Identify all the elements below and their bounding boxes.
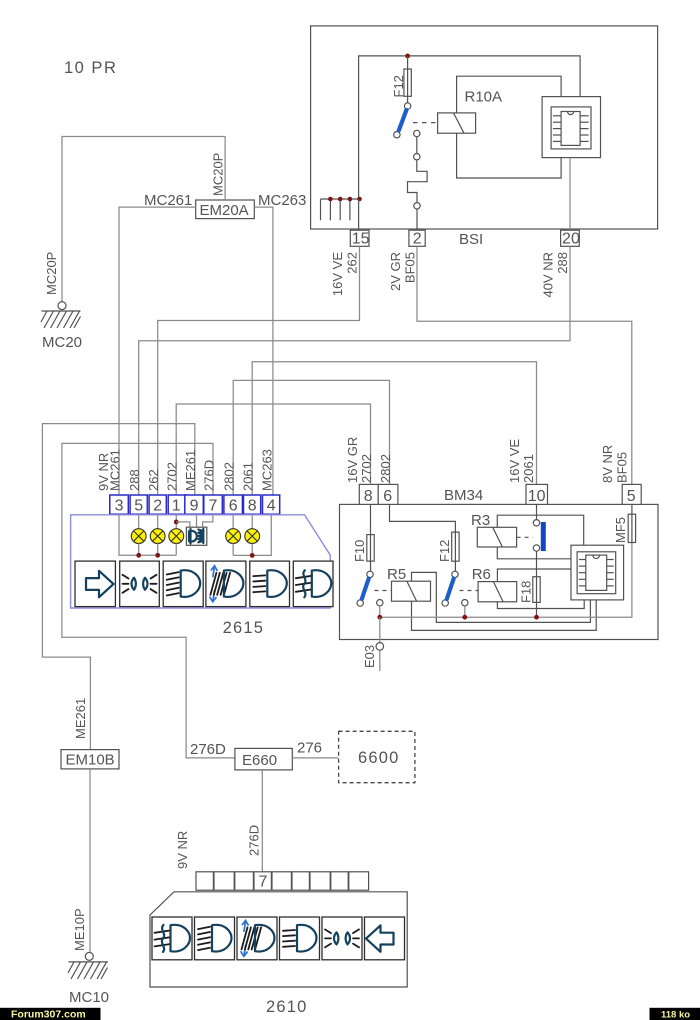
svg-text:2: 2 — [153, 498, 162, 515]
svg-text:ME261: ME261 — [73, 698, 88, 739]
wire thermal contact chain to pin 2 — [408, 137, 428, 230]
wire net MC263 (EM20A to 2615 pin4) — [254, 207, 273, 495]
icon headlamp leveling (2610) — [237, 917, 277, 960]
svg-text:5: 5 — [134, 498, 143, 515]
svg-text:R6: R6 — [472, 566, 491, 583]
svg-text:R5: R5 — [387, 566, 406, 583]
wire lamp return bus left (to pin3) — [119, 514, 176, 555]
wire R6 contact to ground bus — [464, 606, 466, 617]
relay coil R5 — [392, 581, 431, 601]
svg-text:BF05: BF05 — [403, 252, 418, 283]
svg-text:2: 2 — [413, 231, 422, 248]
switch contact (BSI F12 switch) — [394, 96, 420, 138]
svg-text:8V NR: 8V NR — [600, 445, 615, 483]
wire F12 feed stub — [407, 56, 409, 69]
wire pin7 branch to indicator box — [203, 514, 213, 527]
connector row 2615 pins — [110, 495, 280, 515]
svg-text:7: 7 — [208, 498, 217, 515]
svg-text:20: 20 — [562, 231, 580, 248]
connector row 2610 — [196, 872, 369, 891]
svg-text:8: 8 — [248, 498, 257, 515]
footer bar left — [0, 1008, 101, 1020]
splice box E660 — [235, 748, 292, 770]
wire net 288 (BSI pin20 to 2615 pin5) — [139, 246, 570, 495]
switch lever (blue) — [399, 110, 407, 131]
lamp L5 (turn ind) — [131, 514, 146, 555]
svg-text:118 ko: 118 ko — [661, 1009, 690, 1020]
pin 2 (2615) — [149, 495, 166, 514]
node dot lamp2 — [155, 553, 160, 558]
switch lever R5 (blue) — [362, 579, 369, 600]
fuse F10 — [367, 535, 374, 562]
wire EM10B to ground MC10 — [89, 769, 91, 953]
svg-text:MC263: MC263 — [260, 449, 275, 491]
switch lever R6 (blue) — [447, 579, 454, 600]
pin 20 (BSI) — [561, 230, 580, 247]
wire R5 coil bottom to IC — [412, 600, 597, 631]
svg-text:276: 276 — [297, 740, 322, 757]
fuse F18 — [533, 577, 540, 603]
icon position lamps (2615) — [120, 561, 160, 607]
indicator lamp box (cluster symbol) — [186, 527, 206, 545]
pin 15 (BSI) — [350, 230, 369, 247]
svg-text:16V GR: 16V GR — [345, 437, 360, 483]
pin 8 (BM34) — [359, 484, 378, 505]
svg-text:9V NR: 9V NR — [175, 831, 190, 869]
svg-text:2061: 2061 — [241, 462, 256, 491]
svg-text:E660: E660 — [242, 752, 277, 769]
svg-text:4: 4 — [267, 498, 276, 515]
icon position lamps (2610) — [322, 917, 362, 960]
relay coil R10A — [438, 113, 476, 133]
ECU box BSI — [311, 26, 658, 229]
wire R3 coil bottom to IC — [497, 547, 571, 559]
svg-text:F10: F10 — [352, 540, 367, 562]
wire R5 contact to ground bus — [379, 606, 381, 617]
switch contact R6 — [442, 561, 468, 606]
pin 5 (2615) — [130, 495, 147, 514]
pin 6 (2615) — [224, 495, 243, 514]
pin 4 (2615) — [263, 495, 280, 514]
lamp L2 — [150, 514, 165, 555]
svg-text:MC263: MC263 — [258, 192, 306, 209]
svg-text:6600: 6600 — [358, 749, 400, 767]
wire lamp return bus right (to pin4) — [233, 514, 271, 555]
svg-text:2V GR: 2V GR — [388, 252, 403, 291]
wire R10A coil bottom to IC — [457, 133, 561, 178]
svg-text:288: 288 — [555, 252, 570, 274]
svg-text:MC261: MC261 — [108, 449, 123, 491]
wire net 276D (2615 pin7 to E660) — [62, 443, 235, 758]
node dot bus R5 — [377, 615, 382, 620]
svg-text:5: 5 — [627, 488, 636, 505]
wire net 276 (E660 to 6600) — [292, 757, 338, 759]
mechanical link dashes R10A — [413, 122, 438, 124]
wire BSI pin20 internal — [569, 158, 571, 230]
svg-text:2702: 2702 — [359, 454, 374, 483]
svg-text:MC10: MC10 — [69, 989, 109, 1006]
node dot pin1 branch — [174, 520, 179, 525]
node dot lamp5 — [136, 553, 141, 558]
relay coil R3 — [477, 527, 516, 547]
icon fog lamp (2610) — [152, 917, 192, 960]
wire R5 coil top to IC — [412, 572, 591, 622]
pin 10 (BM34) — [526, 484, 548, 505]
svg-text:9: 9 — [190, 498, 199, 515]
icon high beam (2610) — [280, 917, 320, 960]
svg-text:8: 8 — [364, 488, 373, 505]
wire pin1 branch to indicator box — [176, 522, 190, 527]
wire bus to E03 ground — [379, 617, 381, 642]
svg-text:R10A: R10A — [465, 89, 503, 106]
pin 2 (BSI) — [409, 230, 425, 247]
pin 3 (2615) — [110, 495, 129, 514]
wire F18 to ground bus — [536, 602, 538, 617]
svg-text:MC20: MC20 — [42, 334, 82, 351]
node dot lamp8 — [250, 553, 255, 558]
mechanical link dashes R6 — [460, 590, 479, 592]
node junction F12 top — [405, 54, 410, 59]
lamp L1 — [169, 514, 184, 555]
svg-text:2061: 2061 — [521, 454, 536, 483]
svg-text:ME10P: ME10P — [72, 908, 87, 951]
svg-text:MF5: MF5 — [613, 517, 628, 543]
svg-text:F12: F12 — [437, 540, 452, 562]
svg-text:2802: 2802 — [378, 454, 393, 483]
svg-text:40V NR: 40V NR — [541, 252, 556, 298]
pin 8 (2615) — [244, 495, 261, 514]
svg-text:BSI: BSI — [459, 231, 483, 248]
svg-text:MC20P: MC20P — [211, 153, 226, 196]
wire net 262 (BSI pin15 to 2615 pin2) — [158, 246, 360, 495]
wire net MC20P — [62, 137, 225, 302]
icon low beam (2615) — [163, 561, 203, 607]
svg-text:7: 7 — [259, 874, 268, 891]
svg-text:BF05: BF05 — [615, 452, 630, 483]
splice comb (BSI pin15 internal) — [321, 197, 362, 221]
wire contact R3 to F18 — [536, 551, 538, 577]
svg-text:6: 6 — [229, 498, 238, 515]
svg-text:276D: 276D — [247, 825, 262, 856]
pin 7 (2615) — [204, 495, 223, 514]
wire BSI internal top feed — [359, 56, 580, 199]
electronic module U1 (BSI IC) — [542, 97, 600, 158]
svg-text:6: 6 — [383, 488, 392, 505]
wire pin10 to contact R3 — [536, 504, 538, 519]
fuse F12 (BM34) — [452, 532, 459, 561]
splice E03 — [376, 643, 384, 671]
mechanical link dashes R5 — [375, 590, 392, 592]
svg-text:BM34: BM34 — [444, 487, 483, 504]
node dot bus R6 — [462, 615, 467, 620]
pin 6 (BM34) — [378, 484, 398, 505]
wire pin6 to F12 — [390, 504, 456, 532]
svg-text:16V VE: 16V VE — [507, 439, 522, 483]
svg-text:2615: 2615 — [223, 619, 265, 637]
wire net 276D (E660 to 2610 pin7) — [261, 770, 263, 872]
icon turn arrow (2610) — [365, 917, 405, 960]
svg-text:Forum307.com: Forum307.com — [11, 1009, 86, 1020]
wire BSI pin15 internal — [358, 199, 360, 230]
wire net BF05 (BSI pin2 to BM34 pin5) — [417, 246, 632, 484]
icon high beam (2615) — [250, 561, 290, 607]
splice box EM10B — [61, 750, 119, 769]
housing outline 2615 (blue) — [71, 515, 331, 608]
wire ground bus E03 (to MF5 bottom) — [380, 543, 632, 618]
connector 6600 (dashed) — [339, 731, 415, 782]
svg-text:276D: 276D — [190, 741, 226, 758]
svg-text:10 PR: 10 PR — [64, 59, 117, 77]
wire net 2061 (2615 pin8 to BM34 pin10) — [252, 362, 536, 495]
svg-text:EM10B: EM10B — [66, 752, 115, 769]
wire pin5 to MF5 — [631, 504, 633, 514]
pin 9 (2615) — [185, 495, 204, 514]
mechanical link dashes R3 — [517, 536, 533, 538]
svg-text:E03: E03 — [362, 645, 377, 668]
wire R6 coil top to IC — [497, 569, 571, 582]
svg-text:288: 288 — [127, 469, 142, 491]
fuse F12 (BSI) — [404, 69, 411, 96]
svg-text:276D: 276D — [201, 460, 216, 491]
relay coil R6 — [478, 582, 517, 602]
node dot bus F18 — [534, 615, 539, 620]
svg-text:MC20P: MC20P — [44, 252, 59, 295]
pin 5 (BM34) — [622, 484, 641, 505]
wire net MC261 (EM20A to 2615 pin3) — [119, 207, 196, 495]
wire pin9 stub to indicator box — [196, 514, 198, 527]
svg-text:ME261: ME261 — [183, 450, 198, 491]
fuse MF5 — [628, 514, 635, 542]
icon headlamp leveling (2615) — [206, 561, 246, 607]
wire net ME261 (2615 pin9 to EM10B) — [42, 424, 194, 750]
svg-text:2802: 2802 — [222, 462, 237, 491]
svg-text:15: 15 — [352, 231, 370, 248]
wire R10A coil top to IC — [457, 76, 561, 113]
svg-text:F12: F12 — [391, 75, 406, 97]
svg-text:16V VE: 16V VE — [330, 252, 345, 296]
splice box EM20A — [196, 200, 255, 219]
ground MC20 — [41, 302, 81, 328]
svg-text:EM20A: EM20A — [200, 202, 249, 219]
svg-text:2610: 2610 — [266, 998, 308, 1016]
wire R6 coil bottom to IC — [497, 600, 584, 609]
svg-text:F18: F18 — [519, 581, 534, 603]
svg-text:262: 262 — [345, 252, 360, 274]
svg-text:R3: R3 — [471, 512, 490, 529]
svg-text:3: 3 — [115, 498, 124, 515]
svg-text:262: 262 — [146, 469, 161, 491]
footer bar right — [650, 1008, 700, 1020]
wire R3 coil top to IC — [497, 515, 583, 545]
svg-text:10: 10 — [528, 488, 546, 505]
wire net 2802 (2615 pin6 to BM34 pin6) — [233, 380, 389, 495]
icon low beam (2610) — [195, 917, 235, 960]
relay contact R3 (closed, blue) — [533, 520, 543, 552]
housing outline 2610 — [150, 892, 407, 987]
ECU box BM34 — [340, 504, 659, 639]
ground MC10 — [68, 952, 108, 979]
wire net 2702 (2615 pin1 to BM34 pin8) — [176, 404, 370, 495]
svg-text:2702: 2702 — [165, 462, 180, 491]
svg-text:1: 1 — [172, 498, 181, 515]
electronic module U2 (BM34 IC) — [571, 545, 624, 600]
switch contact R5 — [357, 561, 383, 606]
svg-text:MC261: MC261 — [144, 192, 192, 209]
lamp L8 — [245, 514, 260, 555]
lamp L6 — [226, 514, 241, 555]
icon fog lamp (2615) — [293, 561, 333, 607]
wire pin8 to F10 — [370, 504, 372, 534]
icon turn signal (2615) — [75, 561, 115, 607]
pin 1 (2615) — [168, 495, 187, 514]
